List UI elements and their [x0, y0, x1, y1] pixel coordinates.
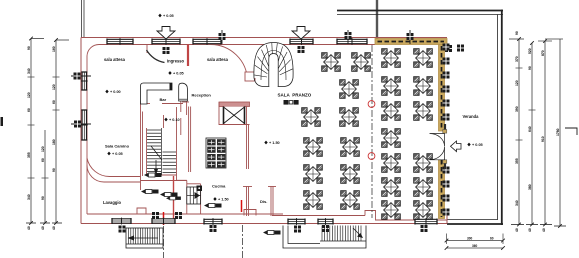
pillar bottom 7	[421, 225, 428, 232]
dimension feet bottom right	[511, 223, 566, 232]
dimension bottom 2	[445, 244, 505, 250]
wall left outer	[80, 38, 82, 224]
svg-text:160: 160	[52, 46, 56, 52]
marker +1.50 dining	[264, 141, 279, 145]
window W6b bottom	[204, 218, 222, 225]
window W5 bottom	[112, 218, 131, 225]
pillar bottom 4	[210, 225, 217, 232]
boundary fence line top-left	[82, 0, 85, 37]
pillar corner NE 1	[445, 45, 452, 52]
wall bottom inner left	[87, 213, 283, 215]
edge label left	[1, 117, 4, 126]
svg-text:+ 0.00: + 0.00	[110, 90, 121, 94]
svg-text:40: 40	[528, 228, 532, 232]
pillar top 2	[219, 30, 226, 44]
svg-text:300: 300	[467, 236, 473, 240]
pillar veranda 5	[443, 100, 450, 107]
wall stair east	[147, 107, 177, 181]
wall bottom recess jog	[137, 208, 146, 214]
wall stair west	[146, 128, 148, 175]
dimension chain left C	[41, 130, 49, 223]
table L1	[322, 53, 341, 72]
pillar veranda 10	[443, 209, 450, 216]
table R3	[382, 77, 401, 96]
svg-text:90: 90	[27, 46, 31, 50]
svg-text:+ 0.05: + 0.05	[163, 14, 174, 18]
pillar top 4	[345, 30, 352, 44]
wall kitchen west	[189, 107, 191, 173]
pillar top 3	[298, 46, 305, 53]
svg-text:90: 90	[41, 196, 45, 200]
table R4	[414, 77, 433, 96]
veranda double door	[430, 124, 462, 169]
window W7 bottom	[288, 218, 305, 225]
svg-text:340: 340	[515, 200, 519, 206]
glazed wall right	[439, 45, 445, 219]
svg-text:Dis.: Dis.	[260, 199, 267, 204]
svg-text:870: 870	[541, 50, 545, 56]
dimension chain right 1	[509, 31, 524, 225]
svg-text:910: 910	[541, 136, 545, 142]
wall reception south tick	[182, 101, 189, 103]
svg-text:+ 0.05: + 0.05	[173, 72, 184, 76]
wall bar south	[141, 103, 183, 105]
svg-text:370: 370	[515, 56, 519, 62]
svg-text:Bar: Bar	[160, 97, 167, 102]
sala pranzo symbol	[284, 100, 299, 105]
table L6	[304, 138, 323, 157]
table L10	[304, 191, 323, 210]
svg-text:640: 640	[528, 126, 532, 132]
staircase main	[147, 128, 176, 175]
svg-text:40: 40	[52, 226, 56, 230]
reference bracket right	[565, 128, 577, 135]
svg-text:60: 60	[27, 108, 31, 112]
wall bottom dis bump	[244, 210, 256, 216]
svg-text:+ 0.05: + 0.05	[472, 143, 483, 147]
door label 7	[166, 197, 181, 200]
svg-text:Veranda: Veranda	[463, 114, 480, 119]
dimension bottom 1	[445, 234, 505, 245]
svg-text:340: 340	[27, 68, 31, 74]
wall top outer	[81, 37, 447, 39]
svg-text:Sala Camino: Sala Camino	[105, 144, 130, 149]
veranda right edge	[498, 10, 502, 225]
svg-text:340: 340	[27, 194, 31, 200]
svg-text:355: 355	[27, 152, 31, 158]
table L8	[304, 165, 323, 184]
marker +0.05 ingresso	[168, 71, 183, 75]
wall bottom inner dining	[272, 211, 447, 221]
svg-text:sala attesa: sala attesa	[104, 57, 126, 62]
table R7	[382, 129, 401, 148]
section line A	[163, 212, 165, 258]
table R6	[414, 102, 433, 121]
window W4a left	[81, 72, 88, 90]
dimension chain right 2	[528, 41, 536, 225]
pillar veranda 6	[443, 114, 450, 121]
pillar veranda 7	[443, 167, 450, 174]
svg-text:90: 90	[515, 31, 519, 35]
window W1 top	[107, 38, 133, 45]
svg-text:360: 360	[472, 244, 478, 248]
pillar veranda 8	[443, 181, 450, 188]
svg-text:355: 355	[515, 158, 519, 164]
wall stair south	[141, 180, 187, 182]
pillar bottom 2	[152, 212, 159, 219]
wall kitchen east	[243, 106, 252, 216]
wall camino east	[141, 101, 143, 191]
entry arrow 2	[292, 27, 310, 40]
table L7	[341, 138, 360, 157]
section line B	[242, 200, 243, 258]
svg-text:40: 40	[542, 228, 546, 232]
marker +0.05 veranda	[467, 143, 482, 147]
table R12	[382, 201, 401, 220]
pillar bottom 1	[119, 226, 126, 233]
svg-text:120: 120	[41, 146, 45, 152]
pillar left 2	[71, 121, 91, 128]
pillar veranda 3	[443, 72, 450, 79]
pillar left 1	[71, 73, 91, 80]
wall lavaggio north	[87, 165, 141, 182]
red circle lower	[368, 153, 375, 160]
dimension chain left B	[52, 38, 69, 223]
red circle upper	[368, 101, 375, 108]
table R10	[382, 178, 401, 197]
door label 4	[160, 193, 178, 197]
wall service corridor west	[186, 181, 188, 214]
wall camino arc	[87, 158, 141, 177]
table R8	[382, 154, 401, 173]
table L9	[341, 165, 360, 184]
marker +0.10	[164, 118, 179, 122]
svg-text:Reception: Reception	[192, 93, 212, 98]
table L3	[340, 80, 359, 99]
marker +0.00	[105, 90, 120, 94]
reception desk	[179, 83, 188, 101]
door swing entrance	[147, 50, 165, 63]
dimension feet bottom left	[26, 221, 62, 230]
pillar bottom 6	[322, 225, 329, 232]
svg-text:120: 120	[52, 84, 56, 90]
table L4	[302, 108, 321, 127]
pillar top 1	[163, 47, 170, 54]
staircase service	[187, 186, 202, 205]
entry door D1	[152, 38, 180, 45]
pillar veranda 4	[443, 86, 450, 93]
table R1	[382, 49, 401, 68]
svg-text:390: 390	[515, 106, 519, 112]
door label 5	[263, 231, 281, 235]
window W3 top	[337, 38, 367, 45]
svg-text:Lavaggio: Lavaggio	[103, 200, 121, 205]
table L2	[352, 53, 371, 72]
pillar top 5	[407, 30, 414, 44]
pillar veranda 2	[443, 58, 450, 65]
duct box stair hall	[245, 72, 255, 81]
window W2 top	[193, 38, 221, 45]
svg-text:+ 0.05: + 0.05	[112, 152, 123, 156]
elevator	[219, 102, 250, 125]
window W9 bottom	[415, 218, 437, 225]
svg-text:120: 120	[27, 92, 31, 98]
dimension chain left A	[27, 37, 44, 223]
svg-text:+ 0.10: + 0.10	[169, 118, 180, 122]
veranda bottom edge	[447, 220, 503, 225]
pillar corner NE 2	[457, 45, 464, 52]
svg-text:40: 40	[27, 226, 31, 230]
table R2	[414, 49, 433, 68]
section line C	[371, 45, 373, 218]
wall curved sala attesa	[210, 44, 248, 81]
table L5	[340, 108, 359, 127]
svg-text:40: 40	[515, 228, 519, 232]
pillar bottom 5	[294, 226, 301, 233]
svg-text:60: 60	[52, 100, 56, 104]
svg-text:520: 520	[528, 48, 532, 54]
bar counter	[141, 83, 173, 104]
marker +0.05 top	[158, 14, 173, 18]
svg-text:380: 380	[528, 184, 532, 190]
dimension chain right 4	[545, 39, 563, 226]
wall bottom outer	[81, 223, 447, 225]
svg-text:90: 90	[528, 66, 532, 70]
svg-text:Ingresso: Ingresso	[167, 59, 185, 64]
wall vestibule left	[146, 45, 148, 54]
svg-text:60: 60	[41, 158, 45, 162]
door label 2	[141, 190, 159, 194]
table L11	[341, 191, 360, 210]
door label 1	[144, 173, 162, 177]
svg-text:90: 90	[52, 168, 56, 172]
window W4b left	[81, 110, 88, 140]
svg-text:120: 120	[515, 80, 519, 86]
pillar bottom 3	[175, 212, 182, 219]
entry door D2	[290, 38, 313, 45]
svg-text:40: 40	[41, 226, 45, 230]
staircase spiral	[254, 43, 294, 87]
party wall line top	[376, 0, 378, 39]
dimension chain right 3	[538, 39, 552, 225]
wall dis east	[268, 186, 276, 216]
window W6 bottom	[152, 218, 175, 225]
table R9	[414, 154, 433, 173]
svg-text:1780: 1780	[556, 128, 560, 136]
staircase external SW	[126, 228, 163, 248]
table R13	[414, 201, 433, 220]
wall right bottom stub	[446, 214, 448, 224]
marker +1.50 cucina	[213, 197, 228, 201]
wall vestibule right	[187, 45, 189, 67]
svg-text:60: 60	[490, 236, 494, 240]
svg-text:+ 1.50: + 1.50	[218, 198, 229, 202]
door label 3	[204, 204, 222, 208]
svg-text:+ 1.50: + 1.50	[269, 141, 280, 145]
svg-text:180: 180	[52, 139, 56, 145]
glazed wall top	[375, 39, 447, 45]
pillar veranda 1	[443, 44, 450, 51]
veranda top edge	[337, 11, 503, 15]
staircase external S	[283, 226, 366, 249]
window W8 bottom	[318, 218, 333, 225]
svg-text:Cucina: Cucina	[212, 184, 226, 189]
marker +0.05 camino	[107, 152, 122, 156]
wall top inner	[87, 44, 375, 56]
entry arrow 1	[157, 27, 175, 40]
table R5	[382, 102, 401, 121]
wall lavaggio east	[173, 176, 175, 224]
wall left inner	[86, 56, 88, 214]
table R11	[414, 178, 433, 197]
kitchen equipment	[206, 138, 226, 168]
svg-text:sala attesa: sala attesa	[207, 57, 229, 62]
svg-text:SALA PRANZO: SALA PRANZO	[278, 93, 312, 98]
wall service corridor north	[177, 180, 201, 184]
wall service corridor east	[200, 184, 202, 214]
pillar veranda 9	[443, 195, 450, 202]
wall reception stub	[181, 101, 187, 135]
